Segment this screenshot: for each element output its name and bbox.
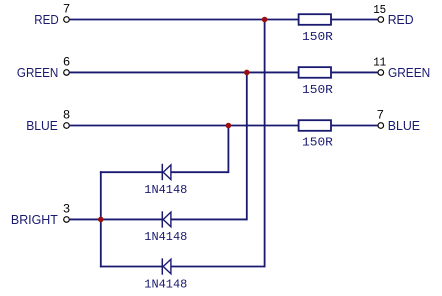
svg-text:1N4148: 1N4148 [144, 183, 187, 197]
resistor R1 [299, 14, 331, 25]
diode D1 triangle [163, 165, 171, 180]
svg-text:1N4148: 1N4148 [144, 230, 187, 244]
wire vertical from BLUE rail junction down to diode D1 row [227, 126, 229, 174]
svg-text:8: 8 [63, 108, 70, 122]
svg-text:1N4148: 1N4148 [144, 277, 187, 291]
diode D2 triangle [163, 212, 171, 227]
wire R1 to RED output terminal [331, 19, 378, 21]
svg-text:BLUE: BLUE [388, 118, 421, 133]
svg-text:6: 6 [63, 55, 70, 69]
svg-text:150R: 150R [302, 136, 333, 150]
junction node RED rail to diode D3 tap [262, 17, 268, 23]
wire R3 to BLUE output terminal [331, 125, 378, 127]
terminal GREEN input [64, 70, 70, 76]
wire BLUE rail left segment [70, 125, 299, 127]
svg-text:11: 11 [373, 56, 386, 70]
wire vertical from GREEN rail junction down to diode D2 row [246, 72, 248, 220]
wire diode D1 anode to BLUE tap [171, 171, 229, 173]
wire vertical from RED rail junction down to diode D3 row [264, 20, 266, 268]
wire BRIGHT terminal to bus junction [70, 218, 101, 220]
svg-text:7: 7 [63, 2, 70, 16]
terminal BLUE output [378, 123, 384, 129]
svg-text:150R: 150R [302, 30, 333, 44]
resistor R2 [299, 67, 331, 78]
terminal RED input [64, 17, 70, 23]
wire R2 to GREEN output terminal [331, 71, 378, 73]
wire bus to diode D2 cathode [101, 218, 163, 220]
svg-text:150R: 150R [302, 83, 333, 97]
terminal BLUE input [64, 123, 70, 129]
svg-text:BRIGHT: BRIGHT [11, 212, 58, 227]
diode D3 triangle [163, 259, 171, 274]
svg-text:3: 3 [63, 202, 70, 216]
svg-text:RED: RED [34, 12, 58, 27]
junction node BRIGHT bus [98, 217, 104, 223]
terminal GREEN output [378, 70, 384, 76]
diode D1 cathode bar [161, 164, 163, 180]
resistor R3 [299, 120, 331, 131]
wire diode D3 anode to RED tap [171, 266, 265, 268]
svg-text:15: 15 [373, 3, 386, 17]
wire diode D2 anode to GREEN tap [171, 218, 247, 220]
wire RED rail left segment [70, 19, 299, 21]
svg-text:7: 7 [377, 108, 384, 122]
svg-text:GREEN: GREEN [388, 65, 430, 80]
wire BRIGHT bus vertical [100, 171, 102, 267]
svg-text:BLUE: BLUE [26, 118, 58, 133]
wire bus to diode D3 cathode [100, 266, 162, 268]
terminal RED output [378, 17, 384, 23]
diode D3 cathode bar [161, 258, 163, 274]
wire bus to diode D1 cathode [100, 171, 162, 173]
svg-text:RED: RED [388, 12, 414, 27]
svg-text:GREEN: GREEN [17, 65, 58, 80]
junction node GREEN rail to diode D2 tap [244, 70, 250, 76]
wire GREEN rail left segment [70, 71, 299, 73]
terminal BRIGHT input [64, 217, 70, 223]
junction node BLUE rail to diode D1 tap [226, 123, 232, 129]
diode D2 cathode bar [161, 211, 163, 227]
